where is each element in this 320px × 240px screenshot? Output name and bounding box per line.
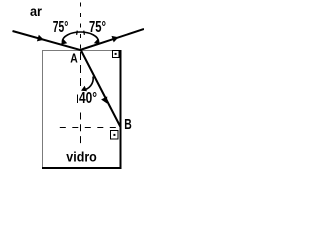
right-angle marker square with dot at top-right corner [113,51,120,58]
right-angle marker square with dot at B [111,131,119,140]
glass block rectangle (vidro) [42,50,122,168]
normal at B (dashed horizontal) [60,127,120,129]
normal at A (dashed vertical), above surface [80,3,82,50]
refracted ray A to B [81,50,121,128]
incident ray arrowhead [37,35,44,42]
refracted ray arrowhead [101,96,107,103]
svg-text:A: A [70,51,78,66]
svg-text:B: B [124,116,132,133]
reflected ray [80,29,144,50]
reflected ray arrowhead [112,36,119,43]
normal at A (dashed vertical), inside glass [80,52,82,89]
svg-text:40°: 40° [79,90,97,107]
75 degree arc with arrowheads [62,32,98,42]
svg-text:vidro: vidro [66,149,97,164]
40 degree curved arrow [83,77,94,91]
svg-text:75°: 75° [53,19,69,36]
svg-text:75°: 75° [89,19,106,36]
incident ray [13,31,82,50]
svg-text:ar: ar [30,3,43,19]
